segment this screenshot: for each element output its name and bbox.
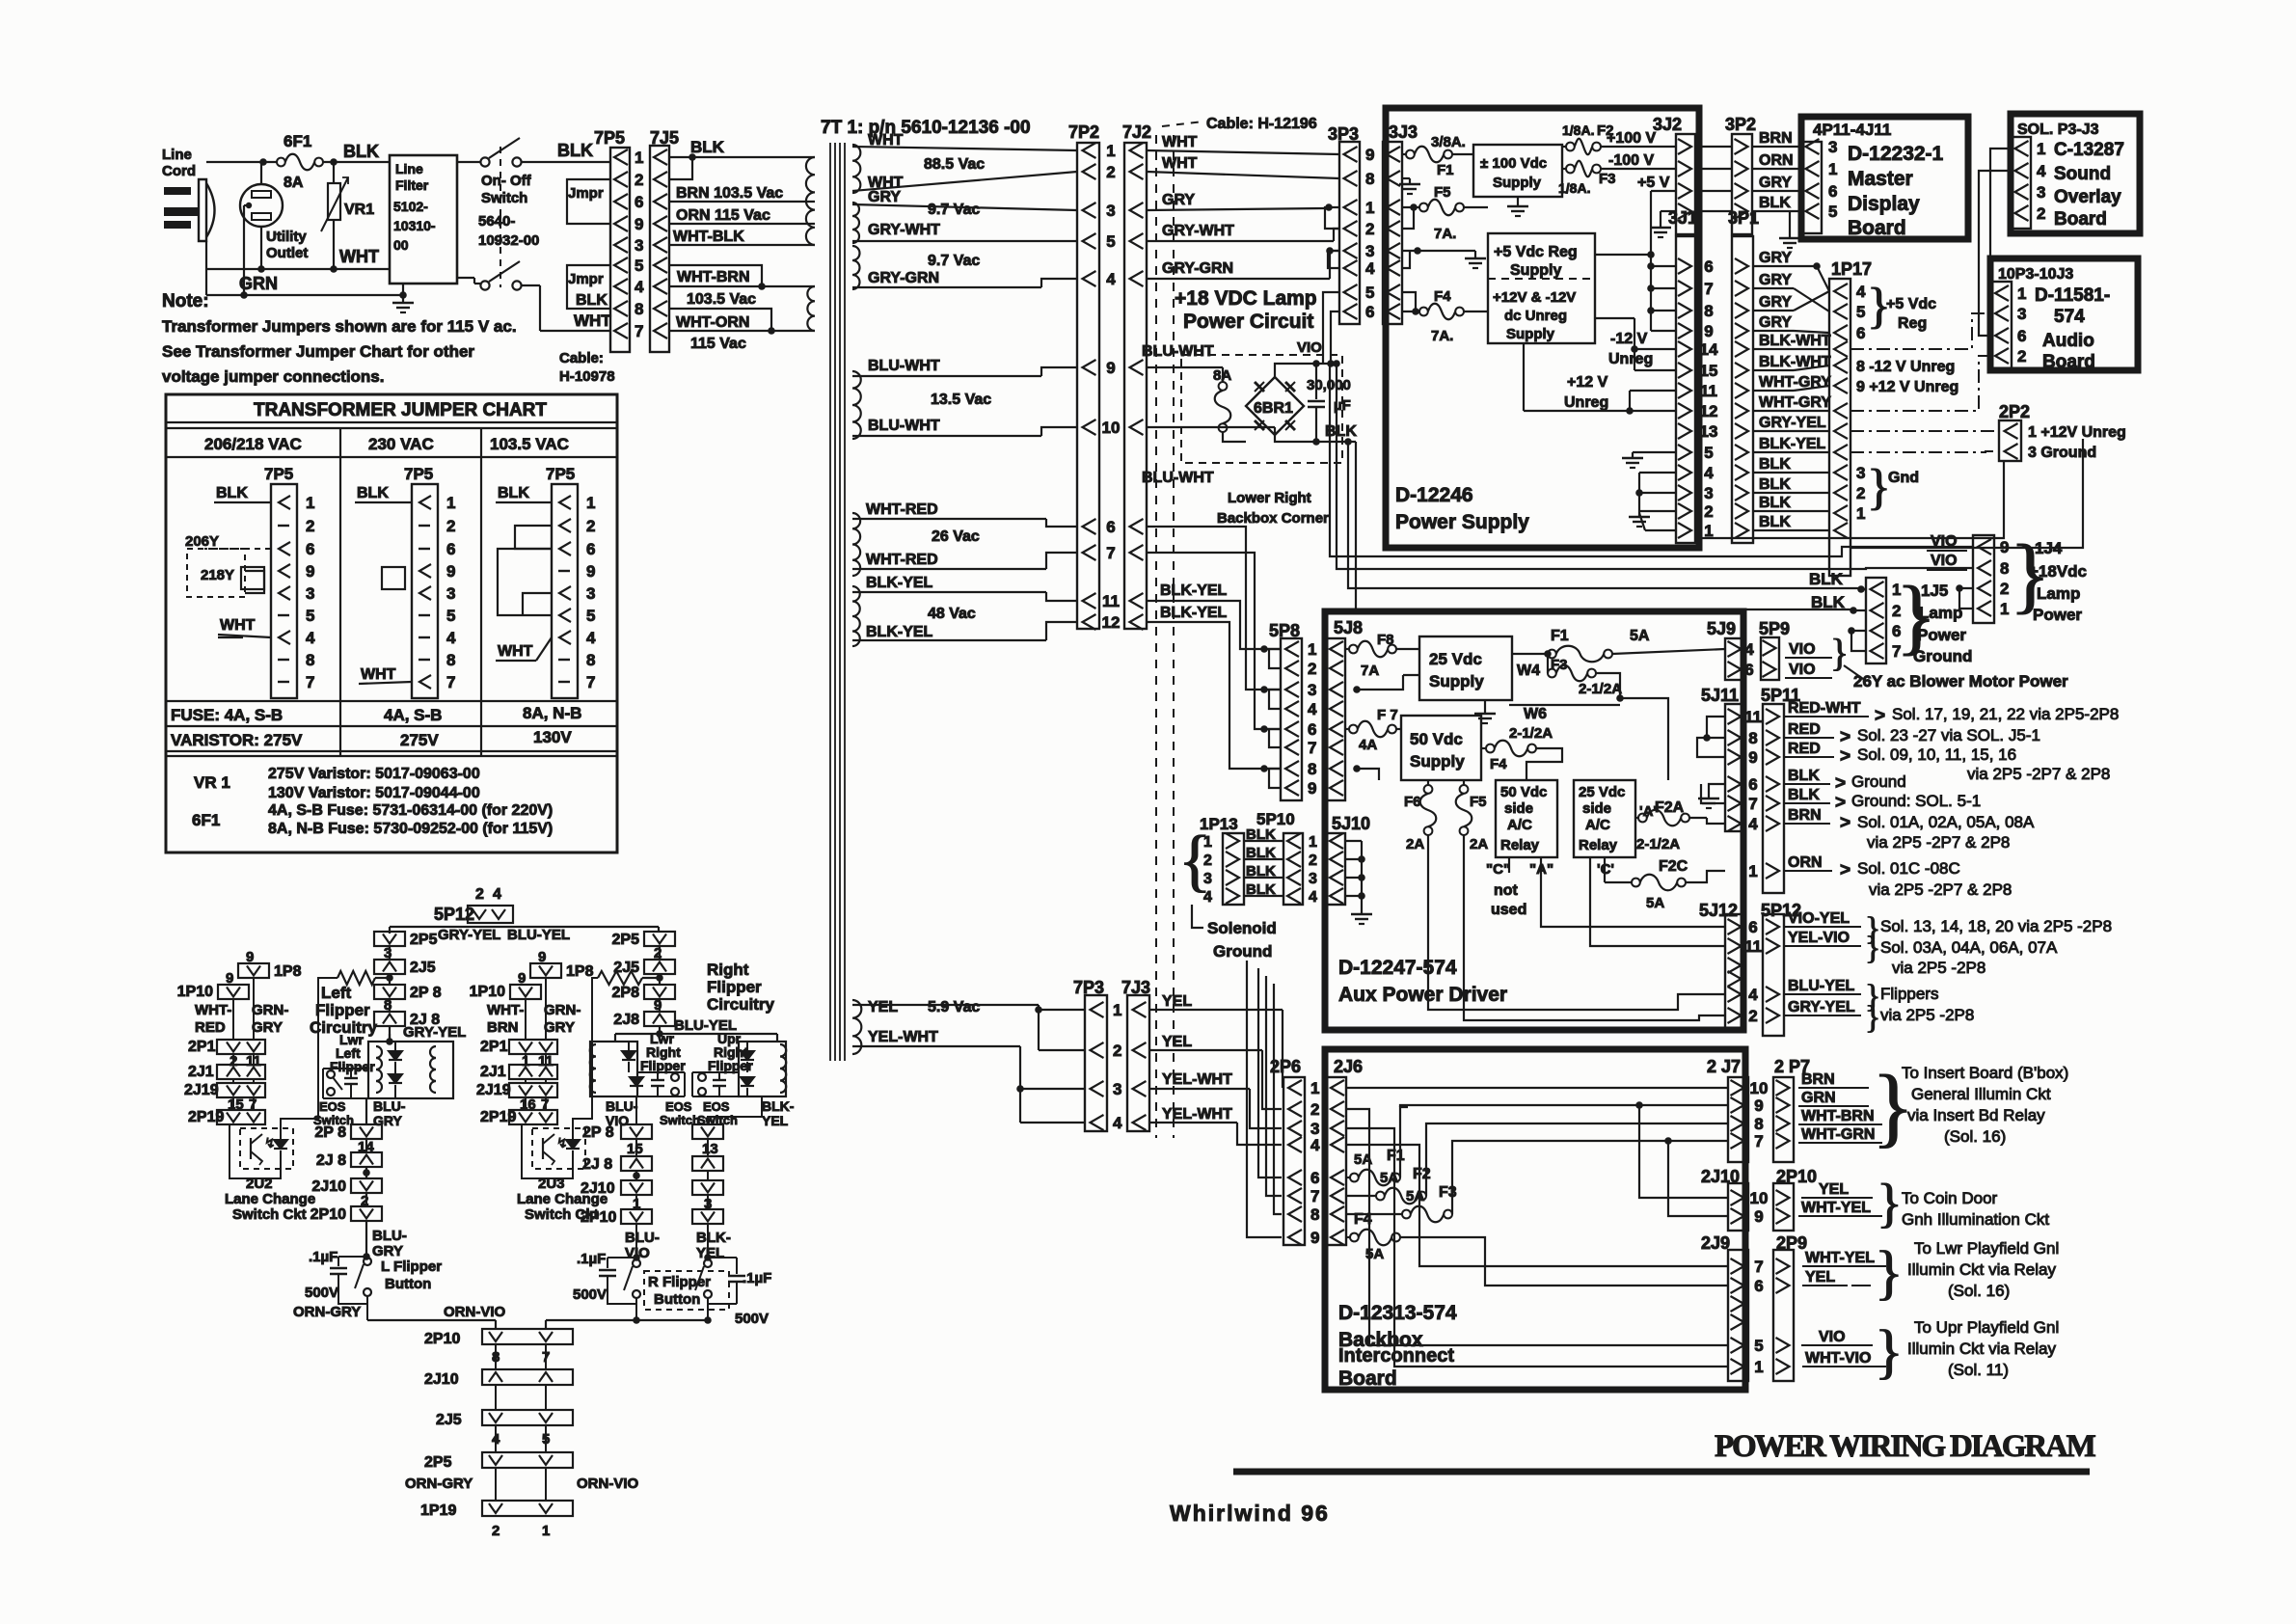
connector 2P10	[1773, 1167, 1817, 1231]
svg-text:3: 3	[1106, 202, 1115, 220]
svg-text:YEL: YEL	[868, 999, 898, 1015]
svg-text:1/8A.: 1/8A.	[1558, 180, 1590, 196]
svg-text:+5 Vdc Reg: +5 Vdc Reg	[1494, 244, 1578, 260]
svg-text:1: 1	[542, 1523, 550, 1539]
svg-text:9: 9	[1748, 748, 1757, 767]
svg-text:3: 3	[1113, 1080, 1121, 1098]
svg-text:To Lwr Playfield Gnl: To Lwr Playfield Gnl	[1914, 1239, 2059, 1258]
svg-text:15: 15	[1700, 362, 1718, 380]
svg-text:11: 11	[1744, 708, 1762, 726]
svg-text:Gnd: Gnd	[1888, 470, 1919, 486]
svg-text:2J10: 2J10	[424, 1371, 459, 1388]
svg-text:3: 3	[1704, 484, 1713, 502]
wire YEL-WHT tap	[1020, 1089, 1085, 1123]
ground below 100V supply	[1507, 197, 1528, 216]
svg-text:2: 2	[2000, 580, 2009, 598]
svg-text:F1: F1	[1551, 628, 1569, 644]
svg-text:5: 5	[1856, 303, 1865, 321]
svg-text:Ground: SOL. 5-1: Ground: SOL. 5-1	[1851, 792, 1981, 810]
svg-text:D-11581-: D-11581-	[2035, 285, 2110, 306]
svg-text:2: 2	[1365, 220, 1374, 238]
svg-text:BLU-WHT: BLU-WHT	[1142, 470, 1214, 486]
secondary winding 13.5Vac	[852, 371, 861, 439]
svg-text:4: 4	[1203, 889, 1212, 906]
ground below 25vdc	[1474, 700, 1496, 723]
svg-text:F4: F4	[1490, 756, 1507, 772]
svg-text:F3: F3	[1439, 1184, 1457, 1201]
svg-text:GRY-YEL: GRY-YEL	[403, 1024, 466, 1041]
svg-text:2P5: 2P5	[424, 1454, 452, 1471]
10P3 pin numbers	[2017, 284, 2026, 365]
wire GRY-GRN to 3P3.3	[1147, 247, 1339, 279]
svg-text:1: 1	[1754, 1358, 1763, 1376]
svg-text:F3: F3	[1599, 171, 1616, 187]
bottom chain 1P19	[420, 1501, 573, 1539]
svg-text:ORN: ORN	[1788, 854, 1823, 871]
svg-text:2J1: 2J1	[188, 1064, 214, 1080]
svg-text:2: 2	[1308, 660, 1316, 678]
svg-text:+12 V: +12 V	[1567, 374, 1608, 391]
svg-text:BLK: BLK	[1246, 845, 1276, 861]
svg-text:2A: 2A	[1406, 836, 1424, 853]
svg-text:Flipper: Flipper	[330, 1059, 375, 1074]
svg-text:BLK: BLK	[1759, 514, 1791, 530]
connector 5J10	[1326, 814, 1370, 905]
svg-text:2J9: 2J9	[1701, 1233, 1730, 1253]
svg-text:2P1: 2P1	[188, 1039, 216, 1055]
svg-text:1J5: 1J5	[1921, 582, 1948, 600]
svg-text:ORN-GRY: ORN-GRY	[405, 1475, 473, 1492]
bottom chain risers	[496, 1320, 546, 1329]
svg-text:via Insert Bd Relay: via Insert Bd Relay	[1907, 1106, 2045, 1124]
svg-text:88.5 Vac: 88.5 Vac	[924, 156, 985, 173]
right LED riser wire	[573, 978, 598, 1130]
svg-text:7: 7	[446, 673, 455, 691]
right flipper rail	[615, 1030, 777, 1042]
svg-text:VIO: VIO	[1789, 641, 1816, 658]
svg-text:GRN-: GRN-	[252, 1002, 288, 1018]
connector 2J6	[1327, 1057, 1363, 1245]
svg-text:6: 6	[1856, 324, 1865, 342]
svg-text:8: 8	[1310, 1205, 1319, 1224]
svg-text:Illumin Ckt via Relay: Illumin Ckt via Relay	[1907, 1260, 2056, 1279]
wire WHT-BLK	[669, 229, 815, 245]
svg-text:WHT: WHT	[1162, 134, 1198, 150]
svg-text:Left: Left	[321, 984, 352, 1002]
5P9 pin numbers	[1744, 640, 1754, 679]
svg-text:D-12232-1: D-12232-1	[1848, 143, 1944, 165]
lwr left flipper coil	[330, 1032, 453, 1098]
svg-text:R Flipper: R Flipper	[648, 1274, 711, 1290]
right chain 2J8	[613, 1012, 737, 1034]
svg-text:VIO: VIO	[1297, 339, 1322, 356]
blower motor label	[1853, 672, 2068, 690]
svg-text:7P5: 7P5	[264, 465, 293, 483]
left chain 2J8	[374, 1012, 466, 1042]
wire GRY-WHT	[852, 222, 1077, 241]
svg-text:VR1: VR1	[344, 202, 374, 218]
svg-text:BLK-YEL: BLK-YEL	[1759, 436, 1826, 452]
svg-text:BLK-: BLK-	[696, 1230, 731, 1246]
svg-text:}: }	[1865, 931, 1880, 966]
svg-text:2P8: 2P8	[612, 985, 640, 1001]
svg-text:9: 9	[1365, 146, 1374, 164]
svg-text:YEL: YEL	[1819, 1181, 1849, 1198]
svg-text:Cord: Cord	[162, 163, 196, 179]
svg-text:8: 8	[2000, 559, 2009, 578]
svg-text:1: 1	[2037, 140, 2045, 158]
svg-text:1 +12V Unreg: 1 +12V Unreg	[2028, 424, 2126, 441]
wire sound overlay pin1	[1990, 149, 2011, 293]
svg-text:BLK-: BLK-	[762, 1098, 795, 1114]
right chain2 2P10 pair	[581, 1209, 723, 1258]
upr right flipper coil	[708, 1031, 786, 1096]
svg-text:230 VAC: 230 VAC	[368, 435, 434, 453]
lwr right flipper coil	[590, 1031, 686, 1096]
wire YEL tap	[1039, 1010, 1085, 1050]
backbox mesh wires	[1346, 1088, 1728, 1367]
svg-text:Ground: Ground	[1213, 942, 1272, 961]
svg-text:7J2: 7J2	[1122, 122, 1151, 142]
svg-text:BRN: BRN	[487, 1019, 519, 1036]
L flipper button switch	[355, 1258, 442, 1320]
wire 5J8.8 stub	[1357, 769, 1379, 780]
svg-text:48 Vac: 48 Vac	[928, 606, 976, 622]
svg-text:25 Vdc: 25 Vdc	[1579, 784, 1625, 800]
svg-text:6: 6	[1704, 257, 1713, 276]
svg-text:Whirlwind 96: Whirlwind 96	[1170, 1501, 1330, 1526]
fuse F3 1/8A	[1558, 152, 1675, 196]
svg-text:GRY-YEL: GRY-YEL	[438, 927, 500, 943]
svg-text:2: 2	[635, 171, 643, 189]
svg-text:2J6: 2J6	[1334, 1057, 1363, 1076]
svg-text:2U2: 2U2	[246, 1176, 273, 1192]
svg-text:WHT-GRY: WHT-GRY	[1759, 394, 1831, 411]
R flipper button switches	[624, 1259, 729, 1320]
wires 3J2 to 3P2	[1695, 147, 1732, 211]
svg-text:Transformer Jumpers shown are: Transformer Jumpers shown are for 115 V …	[162, 317, 517, 336]
svg-text:A/C: A/C	[1585, 817, 1610, 833]
svg-text:dc Unreg: dc Unreg	[1504, 308, 1567, 324]
chart VR1 6F1 rows	[192, 766, 553, 837]
svg-text:FUSE: 4A, S-B: FUSE: 4A, S-B	[171, 706, 283, 724]
svg-text:8: 8	[635, 300, 643, 318]
svg-text:D-12247-574: D-12247-574	[1338, 957, 1457, 979]
svg-text:2: 2	[586, 517, 595, 535]
svg-text:GRY-YEL: GRY-YEL	[1788, 999, 1855, 1015]
svg-text:7A.: 7A.	[1431, 328, 1453, 344]
ground 3J1.5	[1622, 452, 1675, 468]
1P13 brace pins	[1178, 822, 1212, 906]
svg-text:26 Vac: 26 Vac	[932, 528, 980, 545]
svg-text:GRY: GRY	[1759, 314, 1792, 331]
svg-text:9: 9	[1754, 1207, 1763, 1226]
svg-text:4: 4	[1308, 700, 1317, 718]
svg-text:GRY: GRY	[252, 1019, 283, 1036]
svg-text:1: 1	[1856, 504, 1865, 523]
svg-text:BLK: BLK	[216, 485, 248, 501]
connector 2P2	[1999, 402, 2030, 461]
wire BLK-YEL to 5P8.1	[1147, 582, 1281, 653]
svg-text:2P 8: 2P 8	[410, 985, 442, 1001]
backbox fuse F1	[1346, 1148, 1405, 1185]
svg-text:13: 13	[702, 1141, 718, 1157]
svg-text:3: 3	[635, 236, 643, 255]
svg-text:2: 2	[492, 1523, 500, 1539]
svg-text:BLK: BLK	[1809, 570, 1844, 588]
svg-text:7: 7	[635, 322, 643, 340]
labels BLU-VIO BLK-YEL lower	[625, 1230, 731, 1261]
connector 2P6	[1270, 1057, 1305, 1245]
svg-text:+18 VDC Lamp: +18 VDC Lamp	[1175, 287, 1317, 310]
svg-text:1: 1	[1309, 834, 1317, 851]
backbox board title	[1338, 1302, 1457, 1390]
wire BLU-WHT pin9	[1142, 343, 1223, 367]
svg-text:Power Supply: Power Supply	[1395, 511, 1529, 533]
svg-text:Display: Display	[1848, 193, 1920, 215]
svg-text:Sol. 17, 19, 21, 22 via 2P5-2P: Sol. 17, 19, 21, 22 via 2P5-2P8	[1892, 705, 2119, 723]
connector SOL P3	[2011, 137, 2031, 229]
svg-text:2J5: 2J5	[410, 960, 436, 976]
connector 7P5	[594, 128, 630, 352]
svg-text:7P5: 7P5	[404, 465, 433, 483]
svg-text:BLU-: BLU-	[625, 1230, 660, 1246]
svg-text:GRN: GRN	[239, 274, 278, 293]
svg-text:7P5: 7P5	[546, 465, 575, 483]
wire fuse to bridge	[1223, 432, 1246, 442]
wire BLU-WHT bottom	[852, 418, 1077, 436]
wire WHT to 3P3.9	[1147, 134, 1339, 154]
whirlwind 96 label	[1170, 1501, 1330, 1526]
svg-text:WHT-BLK: WHT-BLK	[673, 229, 744, 245]
svg-text:8A: 8A	[1213, 367, 1231, 384]
svg-text:Unreg: Unreg	[1564, 394, 1608, 411]
svg-text:2P10: 2P10	[311, 1206, 346, 1223]
2P6 pin numbers	[1310, 1079, 1320, 1247]
svg-text:1: 1	[1365, 199, 1374, 217]
+18 VDC lamp title	[1175, 287, 1317, 333]
left lower chain wire	[365, 1098, 367, 1124]
label BLK 1J5 b	[1811, 593, 1846, 611]
svg-text:12: 12	[1102, 613, 1121, 632]
right sub-chain wires	[636, 1096, 762, 1124]
wire sound overlay pin4	[1979, 171, 2011, 336]
wires to 2P6 pins 6-9	[1247, 961, 1282, 1237]
wire GRY-GRN	[852, 253, 1077, 287]
svg-text:ORN-VIO: ORN-VIO	[444, 1304, 506, 1320]
svg-text:2J19: 2J19	[476, 1082, 511, 1098]
label VIO 1J4 a	[1927, 533, 1967, 551]
note text	[162, 291, 517, 386]
svg-text:4: 4	[1856, 283, 1866, 301]
svg-text:1: 1	[306, 494, 314, 512]
svg-text:6: 6	[1308, 720, 1316, 739]
svg-text:Jmpr: Jmpr	[568, 271, 604, 287]
svg-text:-12 V: -12 V	[1610, 331, 1648, 347]
wire ORN-VIO	[444, 1304, 712, 1327]
svg-text:.1µF: .1µF	[743, 1270, 771, 1286]
sound overlay title	[2054, 140, 2124, 230]
wire YEL 5.9	[852, 999, 1085, 1015]
svg-text:1P19: 1P19	[420, 1502, 456, 1519]
right flipper circuitry title	[707, 961, 774, 1014]
svg-text:via 2P5 -2P8: via 2P5 -2P8	[1880, 1006, 1974, 1024]
relay C A labels	[1486, 857, 1553, 918]
svg-text:See Transformer Jumper Chart f: See Transformer Jumper Chart for other	[162, 342, 474, 361]
svg-text:On- Off: On- Off	[481, 173, 532, 189]
svg-text:2U3: 2U3	[538, 1176, 565, 1192]
svg-text:4: 4	[586, 629, 596, 647]
svg-text:6: 6	[1748, 918, 1757, 936]
transformer core	[830, 143, 845, 1061]
svg-text:2: 2	[1203, 853, 1212, 869]
svg-text:GRY: GRY	[1759, 272, 1792, 288]
svg-text:BLK: BLK	[1811, 593, 1846, 611]
svg-text:9: 9	[1308, 779, 1316, 798]
svg-text:BLK: BLK	[1246, 881, 1276, 898]
svg-text:WHT-GRN: WHT-GRN	[1801, 1126, 1875, 1143]
svg-text:26Y ac Blower Motor Power: 26Y ac Blower Motor Power	[1853, 672, 2068, 690]
svg-text:WHT-GRY: WHT-GRY	[1759, 374, 1831, 391]
BLK wires 1P13-5P10	[1244, 826, 1283, 898]
transformer primary winding lower	[807, 286, 815, 331]
svg-text:5: 5	[1828, 203, 1837, 221]
svg-text:1: 1	[446, 494, 455, 512]
svg-text:voltage jumper connections.: voltage jumper connections.	[162, 367, 385, 386]
svg-text:GRY-GRN: GRY-GRN	[868, 270, 939, 286]
right chain2 2P8 pair	[582, 1124, 723, 1157]
svg-text:1: 1	[1113, 1001, 1121, 1019]
label BLU-GRY lower	[372, 1228, 407, 1259]
svg-text:218Y: 218Y	[201, 567, 234, 583]
svg-text:8: 8	[306, 651, 314, 669]
svg-text:Note:: Note:	[162, 291, 209, 311]
svg-text:BLK: BLK	[343, 142, 379, 161]
svg-text:>: >	[1835, 773, 1846, 794]
svg-text:>: >	[1840, 860, 1850, 880]
wire YEL-WHT 7J3.3	[1149, 1071, 1282, 1128]
svg-text:POWER WIRING DIAGRAM: POWER WIRING DIAGRAM	[1715, 1429, 2096, 1464]
svg-text:5A: 5A	[1406, 1188, 1424, 1204]
wire VIO to 3P3.6	[1327, 311, 1339, 367]
svg-text:6: 6	[635, 193, 643, 211]
svg-text:WHT-: WHT-	[487, 1002, 524, 1018]
svg-text:WHT-RED: WHT-RED	[866, 552, 938, 568]
svg-text:BLK: BLK	[690, 138, 725, 156]
wire pin2 jog	[669, 153, 696, 179]
svg-text:5J9: 5J9	[1707, 619, 1736, 638]
svg-text:BLK: BLK	[1759, 495, 1791, 511]
svg-text:4A, S-B: 4A, S-B	[384, 706, 442, 724]
svg-text:F4: F4	[1434, 288, 1451, 305]
svg-text:ORN-GRY: ORN-GRY	[293, 1304, 361, 1320]
fuse F1 5A	[1512, 628, 1725, 662]
svg-text:6: 6	[2017, 327, 2026, 345]
svg-text:2: 2	[2037, 204, 2045, 223]
fuse F3 2-1/2A	[1517, 654, 1668, 780]
svg-text:2P5: 2P5	[612, 932, 640, 948]
svg-text:BLK: BLK	[1246, 863, 1276, 880]
svg-text:7P2: 7P2	[1068, 122, 1099, 142]
relay wires to 5J12	[1541, 857, 1725, 946]
bottom chain 2P10	[424, 1329, 573, 1369]
svg-text:C-13287: C-13287	[2054, 140, 2124, 160]
svg-text:WHT: WHT	[339, 247, 379, 266]
svg-text:7: 7	[1748, 795, 1757, 813]
5P12 pin numbers	[1744, 918, 1762, 1025]
wire VIO to 1J4.8	[1333, 360, 1973, 569]
5J8 dots	[1353, 686, 1361, 772]
svg-text:1: 1	[635, 149, 643, 167]
jumper bracket 7P5 5-8	[567, 265, 610, 309]
svg-text:Solenoid: Solenoid	[1207, 919, 1277, 937]
svg-text:GRY: GRY	[544, 1019, 575, 1036]
svg-text:13: 13	[1700, 422, 1718, 441]
svg-text:ORN 115 Vac: ORN 115 Vac	[676, 207, 770, 224]
svg-text:EOS: EOS	[319, 1099, 346, 1114]
wire GRY-YEL to 2P2.1	[1850, 430, 1999, 432]
wire YEL 7J3.2	[1149, 1034, 1282, 1109]
svg-text:5J12: 5J12	[1699, 901, 1738, 920]
svg-text:8A, N-B Fuse: 5730-09252-00: 8A, N-B Fuse: 5730-09252-00 (for 115V)	[268, 821, 553, 837]
svg-text:10: 10	[1750, 1079, 1769, 1097]
insert board text	[1902, 1064, 2068, 1146]
svg-text:2P 8: 2P 8	[582, 1124, 614, 1141]
svg-text:1P8: 1P8	[566, 963, 594, 980]
connector 7P3	[1073, 978, 1107, 1131]
svg-text:3/8A.: 3/8A.	[1431, 134, 1466, 150]
2P7 wire labels	[1798, 1057, 1914, 1155]
svg-text:5640-: 5640-	[478, 213, 515, 230]
svg-text:VIO: VIO	[1819, 1329, 1846, 1345]
svg-text:275V: 275V	[400, 731, 439, 749]
svg-text:}: }	[1877, 1174, 1903, 1233]
svg-text:± 100 Vdc: ± 100 Vdc	[1480, 155, 1547, 172]
svg-text:Relay: Relay	[1500, 837, 1540, 853]
2J10 pin numbers	[1750, 1189, 1769, 1226]
svg-text:2: 2	[1748, 1007, 1757, 1025]
svg-text:>: >	[1840, 813, 1850, 833]
svg-text:2 J7: 2 J7	[1707, 1057, 1741, 1076]
jumper 3P3 3-4	[1328, 251, 1339, 268]
svg-text:.1µF: .1µF	[309, 1249, 338, 1265]
svg-text:not: not	[1494, 882, 1519, 899]
svg-text:6: 6	[1106, 518, 1115, 536]
connector 3P1	[1728, 208, 1759, 543]
5P8 pin numbers	[1308, 640, 1317, 798]
svg-text:14: 14	[1700, 340, 1718, 359]
svg-text:5: 5	[1106, 232, 1115, 251]
svg-text:via 2P5 -2P7 & 2P8: via 2P5 -2P7 & 2P8	[1867, 833, 2010, 852]
svg-text:Audio: Audio	[2042, 331, 2094, 351]
svg-text:Button: Button	[385, 1276, 431, 1292]
svg-text:3J3: 3J3	[1389, 122, 1418, 142]
svg-text:115 Vac: 115 Vac	[690, 336, 746, 352]
5P11 pin numbers	[1744, 708, 1762, 880]
svg-text:6BR1: 6BR1	[1254, 400, 1293, 417]
svg-text:WHT: WHT	[498, 643, 533, 660]
svg-text:EOS: EOS	[665, 1099, 692, 1114]
wire BLK to 1J5.2	[1356, 442, 1866, 614]
wire BLK-YEL to 2P2.3	[1850, 451, 1999, 452]
label SOL P3-J3	[2017, 122, 2099, 138]
svg-text:5P9: 5P9	[1759, 619, 1790, 638]
label BLU-GRY left	[373, 1098, 406, 1128]
connector 2P7	[1773, 1057, 1810, 1162]
svg-text:7A: 7A	[1361, 663, 1379, 679]
labels ORN-GRY ORN-VIO bottom	[405, 1475, 639, 1492]
svg-text:Interconnect: Interconnect	[1338, 1345, 1454, 1367]
